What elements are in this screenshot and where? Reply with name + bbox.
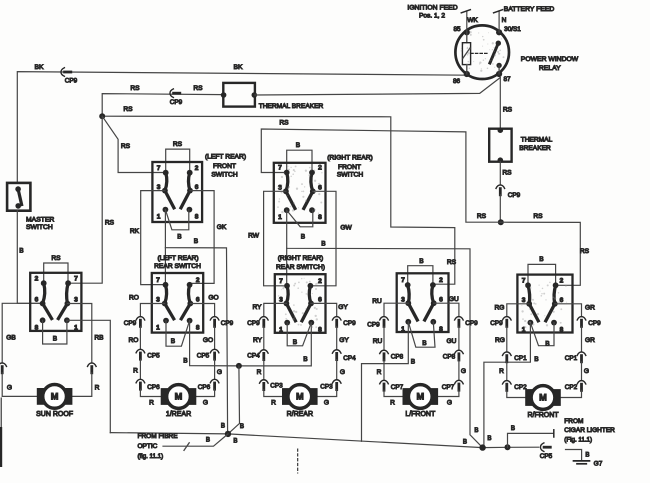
connector CP1 on GR chain [577,352,586,355]
connector CP1 on RG chain [503,352,512,355]
svg-text:3: 3 [401,296,405,303]
motor M4 L/FRONT [403,385,438,418]
svg-text:REAR SWITCH): REAR SWITCH) [276,264,325,271]
svg-text:SWITCH: SWITCH [211,172,238,179]
svg-text:G: G [340,369,345,376]
wire GY between CP9 and CP4 [336,326,338,349]
svg-text:RW: RW [248,233,260,240]
wire G to 1/REAR motor [196,389,214,396]
svg-text:2: 2 [318,278,322,285]
svg-text:R: R [257,369,262,376]
connector CP4 on RY chain [260,350,269,353]
svg-text:B: B [539,256,544,263]
dashed continuation below junction [297,449,299,473]
svg-text:M: M [416,392,424,402]
svg-text:R/REAR: R/REAR [287,411,313,418]
svg-text:CP9: CP9 [343,320,356,327]
bracket B below R/FRONT switch [530,323,554,346]
svg-text:GB: GB [6,335,16,342]
svg-text:3: 3 [74,297,78,304]
wire RG between CP9 and CP1 [506,326,508,352]
svg-text:RS: RS [105,220,115,227]
svg-text:CP9: CP9 [367,322,380,329]
wire RS from junction up to thermal breaker [102,94,221,117]
left rear rear switch S5 [152,273,203,333]
connector CP9 on RU chain [380,317,389,320]
wire GR chain to motor (right) [555,304,582,317]
svg-text:CP7: CP7 [391,384,404,391]
motor M1 SUN ROOF [36,385,73,418]
svg-text:1: 1 [279,327,283,334]
svg-text:(LEFT REAR): (LEFT REAR) [205,154,246,161]
svg-text:B: B [19,248,24,255]
wire G between CP8 and CP7 [458,360,460,380]
svg-text:2: 2 [560,278,564,285]
wire RS breaker to CP9 [499,162,501,185]
svg-text:RS: RS [477,213,487,220]
connector CP7 on GU chain [455,380,464,383]
svg-text:B: B [233,437,237,444]
svg-text:1/REAR: 1/REAR [166,411,191,418]
wire B left-rear rear pin8 to bottom junction [190,321,239,366]
svg-text:B: B [240,423,244,430]
svg-text:7: 7 [74,275,78,282]
wire G to sun roof motor [2,373,37,397]
wire B bottom ground rail [110,433,539,448]
wire GO between CP9 and CP5 [214,326,216,349]
svg-text:2: 2 [195,165,199,172]
svg-text:BK: BK [34,64,44,71]
svg-text:SUN ROOF: SUN ROOF [36,411,73,418]
svg-text:CP9: CP9 [508,192,521,199]
wire R to sun roof motor [72,373,92,397]
bracket B below right rear rear switch [287,323,311,346]
svg-text:8: 8 [35,324,39,331]
svg-text:R: R [271,400,276,407]
svg-text:B: B [303,356,308,363]
ignition feed terminal WK [466,11,468,32]
svg-text:GW: GW [340,224,352,231]
thermal breaker (top) [221,83,257,107]
connector CP9 on GY chain [332,317,341,320]
node bottom right B junction [479,444,485,450]
svg-text:B: B [585,452,589,459]
wire G between CP4 and CP3 [336,360,338,380]
svg-text:GU: GU [449,296,459,303]
connector CP7 on RU chain [380,380,389,383]
wire RY between CP9 and CP4 [263,326,265,349]
svg-text:POWER WINDOW: POWER WINDOW [521,56,579,63]
wire B L/FRONT pin1 to bottom rail [362,322,409,442]
svg-text:G: G [7,385,12,392]
svg-text:GY: GY [339,337,349,344]
svg-text:GY: GY [338,304,348,311]
svg-text:CP2: CP2 [565,384,578,391]
svg-text:THERMAL BREAKER: THERMAL BREAKER [259,103,324,110]
svg-text:B: B [545,340,550,347]
svg-text:B: B [53,335,58,342]
svg-text:B: B [293,339,298,346]
svg-text:B: B [296,142,301,149]
svg-text:G: G [584,368,589,375]
svg-text:85: 85 [453,26,461,33]
wire G between CP5 and CP6 [214,359,216,379]
svg-text:CP9: CP9 [465,320,478,327]
right rear front switch S4 [274,163,326,223]
svg-text:B: B [511,425,515,432]
svg-text:WK: WK [467,17,478,24]
svg-text:RS: RS [51,255,61,262]
svg-text:8: 8 [318,327,322,334]
connector CP3 on GY chain [332,380,341,383]
node RS distribution junction [498,219,504,225]
svg-text:G: G [324,400,329,407]
svg-text:1: 1 [157,214,161,221]
svg-text:R: R [390,400,395,407]
L/FRONT switch S7 [397,273,449,333]
svg-text:B: B [194,238,199,245]
svg-text:G7: G7 [594,461,603,468]
wire BK from master switch to relay terminal 86 [17,72,467,183]
bracket RS above left-rear front switch [166,149,190,173]
wire G to R/FRONT motor [561,390,582,397]
connector CP9 on RO chain [136,317,145,320]
master switch S1 [7,183,30,211]
svg-text:B: B [301,233,306,240]
svg-text:RB: RB [94,335,104,342]
connector CP9 on GR chain [577,317,586,320]
svg-text:B: B [171,338,176,345]
wire GW right-rear front pin6 to rear switch pin2 [312,191,336,285]
wire RK left-rear front pin3 to rear switch pin7 [141,191,165,285]
svg-text:CP1: CP1 [514,355,527,362]
svg-text:FRONT: FRONT [338,164,361,171]
node bottom left B junction [225,431,231,437]
svg-text:RS: RS [503,107,513,114]
svg-text:IGNITION FEED: IGNITION FEED [407,4,457,11]
svg-text:M: M [539,393,547,403]
svg-text:RS: RS [193,85,203,92]
svg-text:RG: RG [495,337,505,344]
wire RS rail to left front switch area [101,116,455,284]
svg-text:6: 6 [560,297,564,304]
svg-text:CP9: CP9 [124,320,137,327]
svg-text:SWITCH: SWITCH [26,224,53,231]
wire B left-rear front pin1 to B rail [165,210,227,434]
connector CP2 on RG chain [503,381,512,384]
scan artifact bar bottom left [0,427,2,467]
svg-text:OPTIC: OPTIC [138,443,158,450]
svg-text:RELAY: RELAY [539,65,561,72]
svg-text:B: B [422,340,427,347]
svg-text:3: 3 [157,184,161,191]
sun roof switch S2 (master panel) [30,273,81,332]
svg-text:RU: RU [372,298,382,305]
connector CP9 on RS wire [170,89,173,98]
svg-text:CP3: CP3 [320,384,333,391]
svg-text:RY: RY [252,304,262,311]
wire RB sun roof pin 3 to motor [67,304,91,364]
wire B master switch to sun roof switch pin 6 [17,211,41,304]
svg-text:CP9: CP9 [247,320,260,327]
svg-text:RS: RS [580,248,590,255]
svg-text:B: B [419,258,424,265]
svg-text:MASTER: MASTER [26,217,54,224]
svg-text:FROM: FROM [564,418,583,425]
svg-text:R: R [149,400,154,407]
svg-text:3: 3 [156,297,160,304]
svg-text:RK: RK [130,228,140,235]
wire GY chain to motor (right) [311,303,337,316]
svg-text:GK: GK [217,224,227,231]
battery feed terminal N [498,11,500,32]
wire B to cigar lighter feed [508,433,554,447]
wire B rail stub down into rear switch pin 7 [164,248,166,285]
svg-text:GO: GO [208,294,218,301]
svg-text:CP9: CP9 [588,320,601,327]
right rear rear switch S6 [275,274,326,333]
svg-text:2: 2 [35,275,39,282]
connector on RB wire [88,363,97,366]
motor M2 1/REAR [161,385,196,418]
svg-text:6: 6 [439,296,443,303]
wire GU chain to motor (right) [434,303,459,316]
svg-text:(Fig. 11.1): (Fig. 11.1) [564,436,592,443]
svg-text:GO: GO [203,337,213,344]
svg-text:CIGAR LIGHTER: CIGAR LIGHTER [564,427,615,434]
svg-text:(LEFT REAR): (LEFT REAR) [157,255,198,262]
svg-text:RY: RY [253,337,263,344]
svg-text:CP5: CP5 [197,353,210,360]
wire GK left-rear front pin6 to rear switch pin2 [190,191,214,284]
svg-text:R: R [95,385,100,392]
connector CP9 on GU chain [455,317,464,320]
scan speckle right-rear front switch [277,165,322,215]
svg-text:R: R [377,369,382,376]
wire RG chain to motor (left) [507,304,529,317]
connector CP8 on GU chain [455,350,464,353]
wire R between CP4 and CP3 [263,360,265,380]
svg-text:R/FRONT: R/FRONT [527,412,559,419]
svg-text:6: 6 [195,184,199,191]
svg-text:G: G [447,400,452,407]
connector CP4 on GY chain [332,350,341,353]
svg-text:CP5: CP5 [540,453,553,460]
wire R to 1/REAR motor [140,389,160,396]
ground G7 [566,450,582,460]
bracket RS above sun roof switch [44,263,68,283]
node B junction mid rail [236,363,242,369]
svg-text:CP9: CP9 [221,320,234,327]
svg-text:(RIGHT REAR): (RIGHT REAR) [278,255,324,262]
svg-text:B: B [321,241,326,248]
connector CP9 under right breaker [496,185,505,188]
svg-text:CP6: CP6 [198,384,211,391]
svg-text:THERMAL: THERMAL [521,137,553,144]
svg-text:1: 1 [74,324,78,331]
svg-text:B: B [206,437,210,444]
wire RS junction rail left and up to mid rail [261,129,501,222]
svg-text:FROM FIBRE: FROM FIBRE [138,433,179,440]
svg-text:G: G [461,368,466,375]
svg-text:RS: RS [502,170,512,177]
svg-text:3: 3 [522,297,526,304]
svg-text:REAR SWITCH: REAR SWITCH [154,263,201,270]
svg-text:RO: RO [129,294,139,301]
svg-text:1: 1 [401,326,405,333]
slash mark on fibre optic wire [184,443,189,451]
bracket B below left rear rear switch [166,321,190,347]
svg-text:CP8: CP8 [391,354,404,361]
svg-text:CP9: CP9 [170,99,183,106]
svg-text:R: R [499,368,504,375]
svg-text:7: 7 [156,277,160,284]
svg-text:(RIGHT REAR): (RIGHT REAR) [327,155,373,162]
wire GO chain to motor (right) [190,304,214,317]
connector CP5 on RO chain [136,349,145,352]
connector CP2 on GR chain [577,381,586,384]
wire RS relay 87 down to thermal breaker 2 [499,78,501,129]
svg-text:7: 7 [157,165,161,172]
svg-text:N: N [502,17,507,24]
svg-text:RS: RS [123,106,133,113]
svg-text:RS: RS [130,85,140,92]
svg-text:B: B [183,358,188,365]
wire RO between CP9 and CP5 [139,326,141,349]
svg-text:GR: GR [585,337,595,344]
scan speckle R/FRONT switch [521,282,567,328]
svg-text:CP4: CP4 [247,353,260,360]
bracket B below sun roof switch [43,320,67,344]
connector CP9 on BK wire [61,68,64,77]
wire R between CP1 and CP2 [506,362,508,381]
wire B right-rear front pin1 to right B rail [287,210,483,447]
connector CP9 on RY chain [260,317,269,320]
bracket B below L/FRONT switch [408,322,435,347]
connector CP6 on RO chain [136,379,145,382]
svg-text:CP8: CP8 [443,354,456,361]
power window relay U1 [455,25,509,79]
svg-text:CP9: CP9 [490,320,503,327]
connector CP9 on GO chain [210,317,219,320]
node RS junction at x102 [99,113,105,119]
svg-text:R: R [133,368,138,375]
wire G to L/FRONT motor [438,390,459,396]
svg-text:Pos. 1, 2: Pos. 1, 2 [419,13,445,20]
svg-text:B: B [177,233,182,240]
svg-text:CP5: CP5 [147,353,160,360]
bracket B below left-rear front switch [165,210,188,230]
connector CP8 on RU chain [380,350,389,353]
svg-text:1: 1 [156,325,160,332]
wire R between CP5 and CP6 [139,359,141,379]
svg-text:RS: RS [121,143,131,150]
svg-text:BK: BK [233,64,243,71]
svg-text:6: 6 [35,297,39,304]
bracket B below right-rear front switch [287,210,313,227]
svg-text:G: G [203,400,208,407]
svg-text:CP6: CP6 [147,384,160,391]
svg-text:CP1: CP1 [565,355,578,362]
svg-text:M: M [296,392,304,402]
svg-text:B: B [411,358,416,365]
svg-text:6: 6 [318,185,322,192]
svg-text:B: B [463,439,467,446]
wire B sun roof pin 1 to bottom rail [67,320,110,432]
svg-text:CP4: CP4 [343,355,356,362]
bracket B above R/FRONT switch [528,264,556,285]
wire from fibre optic to junction [163,434,228,446]
left rear front switch S3 [152,162,202,222]
svg-text:CP9: CP9 [65,78,78,85]
svg-text:8: 8 [439,326,443,333]
svg-text:BREAKER: BREAKER [519,145,551,152]
svg-text:RO: RO [129,337,139,344]
scan speckle right-rear rear switch [278,278,321,328]
wire G to R/REAR motor [318,390,337,397]
scan speckle relay interior [461,31,505,72]
svg-text:B: B [487,435,491,442]
svg-text:2: 2 [196,277,200,284]
svg-text:GR: GR [585,305,595,312]
wire RU chain to motor (left) [384,303,408,316]
svg-text:8: 8 [195,214,199,221]
wire RU between CP9 and CP8 [383,326,385,350]
wire B R/FRONT pin1 to bottom junction [484,323,531,448]
svg-text:BATTERY FEED: BATTERY FEED [504,6,555,13]
R/FRONT switch S8 [517,275,572,334]
svg-text:7: 7 [278,165,282,172]
bracket B above right-rear front switch [287,150,312,172]
svg-text:M: M [175,392,183,402]
wire R between CP8 and CP7 [383,360,385,380]
svg-text:RU: RU [373,338,383,345]
wire RS CP9 down to RS distribution node [499,195,501,222]
svg-text:G: G [217,369,222,376]
svg-text:RS: RS [279,119,289,126]
svg-text:7: 7 [522,278,526,285]
wire GR between CP9 and CP1 [581,326,583,352]
wire RS junction to R/FRONT switch pin2 [501,222,581,285]
thermal breaker (right) [489,127,511,163]
svg-text:B: B [534,356,539,363]
bracket B above L/FRONT switch [408,266,433,285]
wire R to R/REAR motor [264,390,282,397]
wire RS diagonal branch to left-rear front switch pin 7 [102,116,164,172]
svg-text:8: 8 [318,214,322,221]
wire B rail stub down into right rear switch pin 7 [286,248,288,285]
wire GU between CP9 and CP8 [458,326,460,350]
svg-text:30/S1: 30/S1 [504,26,521,33]
wire GB sun roof pin6 rail to left edge [2,303,41,363]
svg-text:8: 8 [196,325,200,332]
svg-text:B: B [221,422,225,429]
svg-text:RS: RS [173,141,183,148]
svg-text:2: 2 [439,277,443,284]
node cigar lighter branch junction [505,444,511,450]
svg-text:RS: RS [533,213,543,220]
svg-text:7: 7 [401,277,405,284]
wire RW right-rear front pin3 to rear switch pin7 [264,191,287,285]
connector CP5 at end of ground rail [540,443,543,452]
connector CP3 on RY chain [260,380,269,383]
connector CP5 on GO chain [210,349,219,352]
wire RS from thermal breaker to relay terminal 87 [255,78,500,95]
svg-text:8: 8 [560,327,564,334]
svg-text:7: 7 [279,278,283,285]
wire RO chain to motor (left) [140,304,164,317]
svg-text:L/FRONT: L/FRONT [405,411,436,418]
